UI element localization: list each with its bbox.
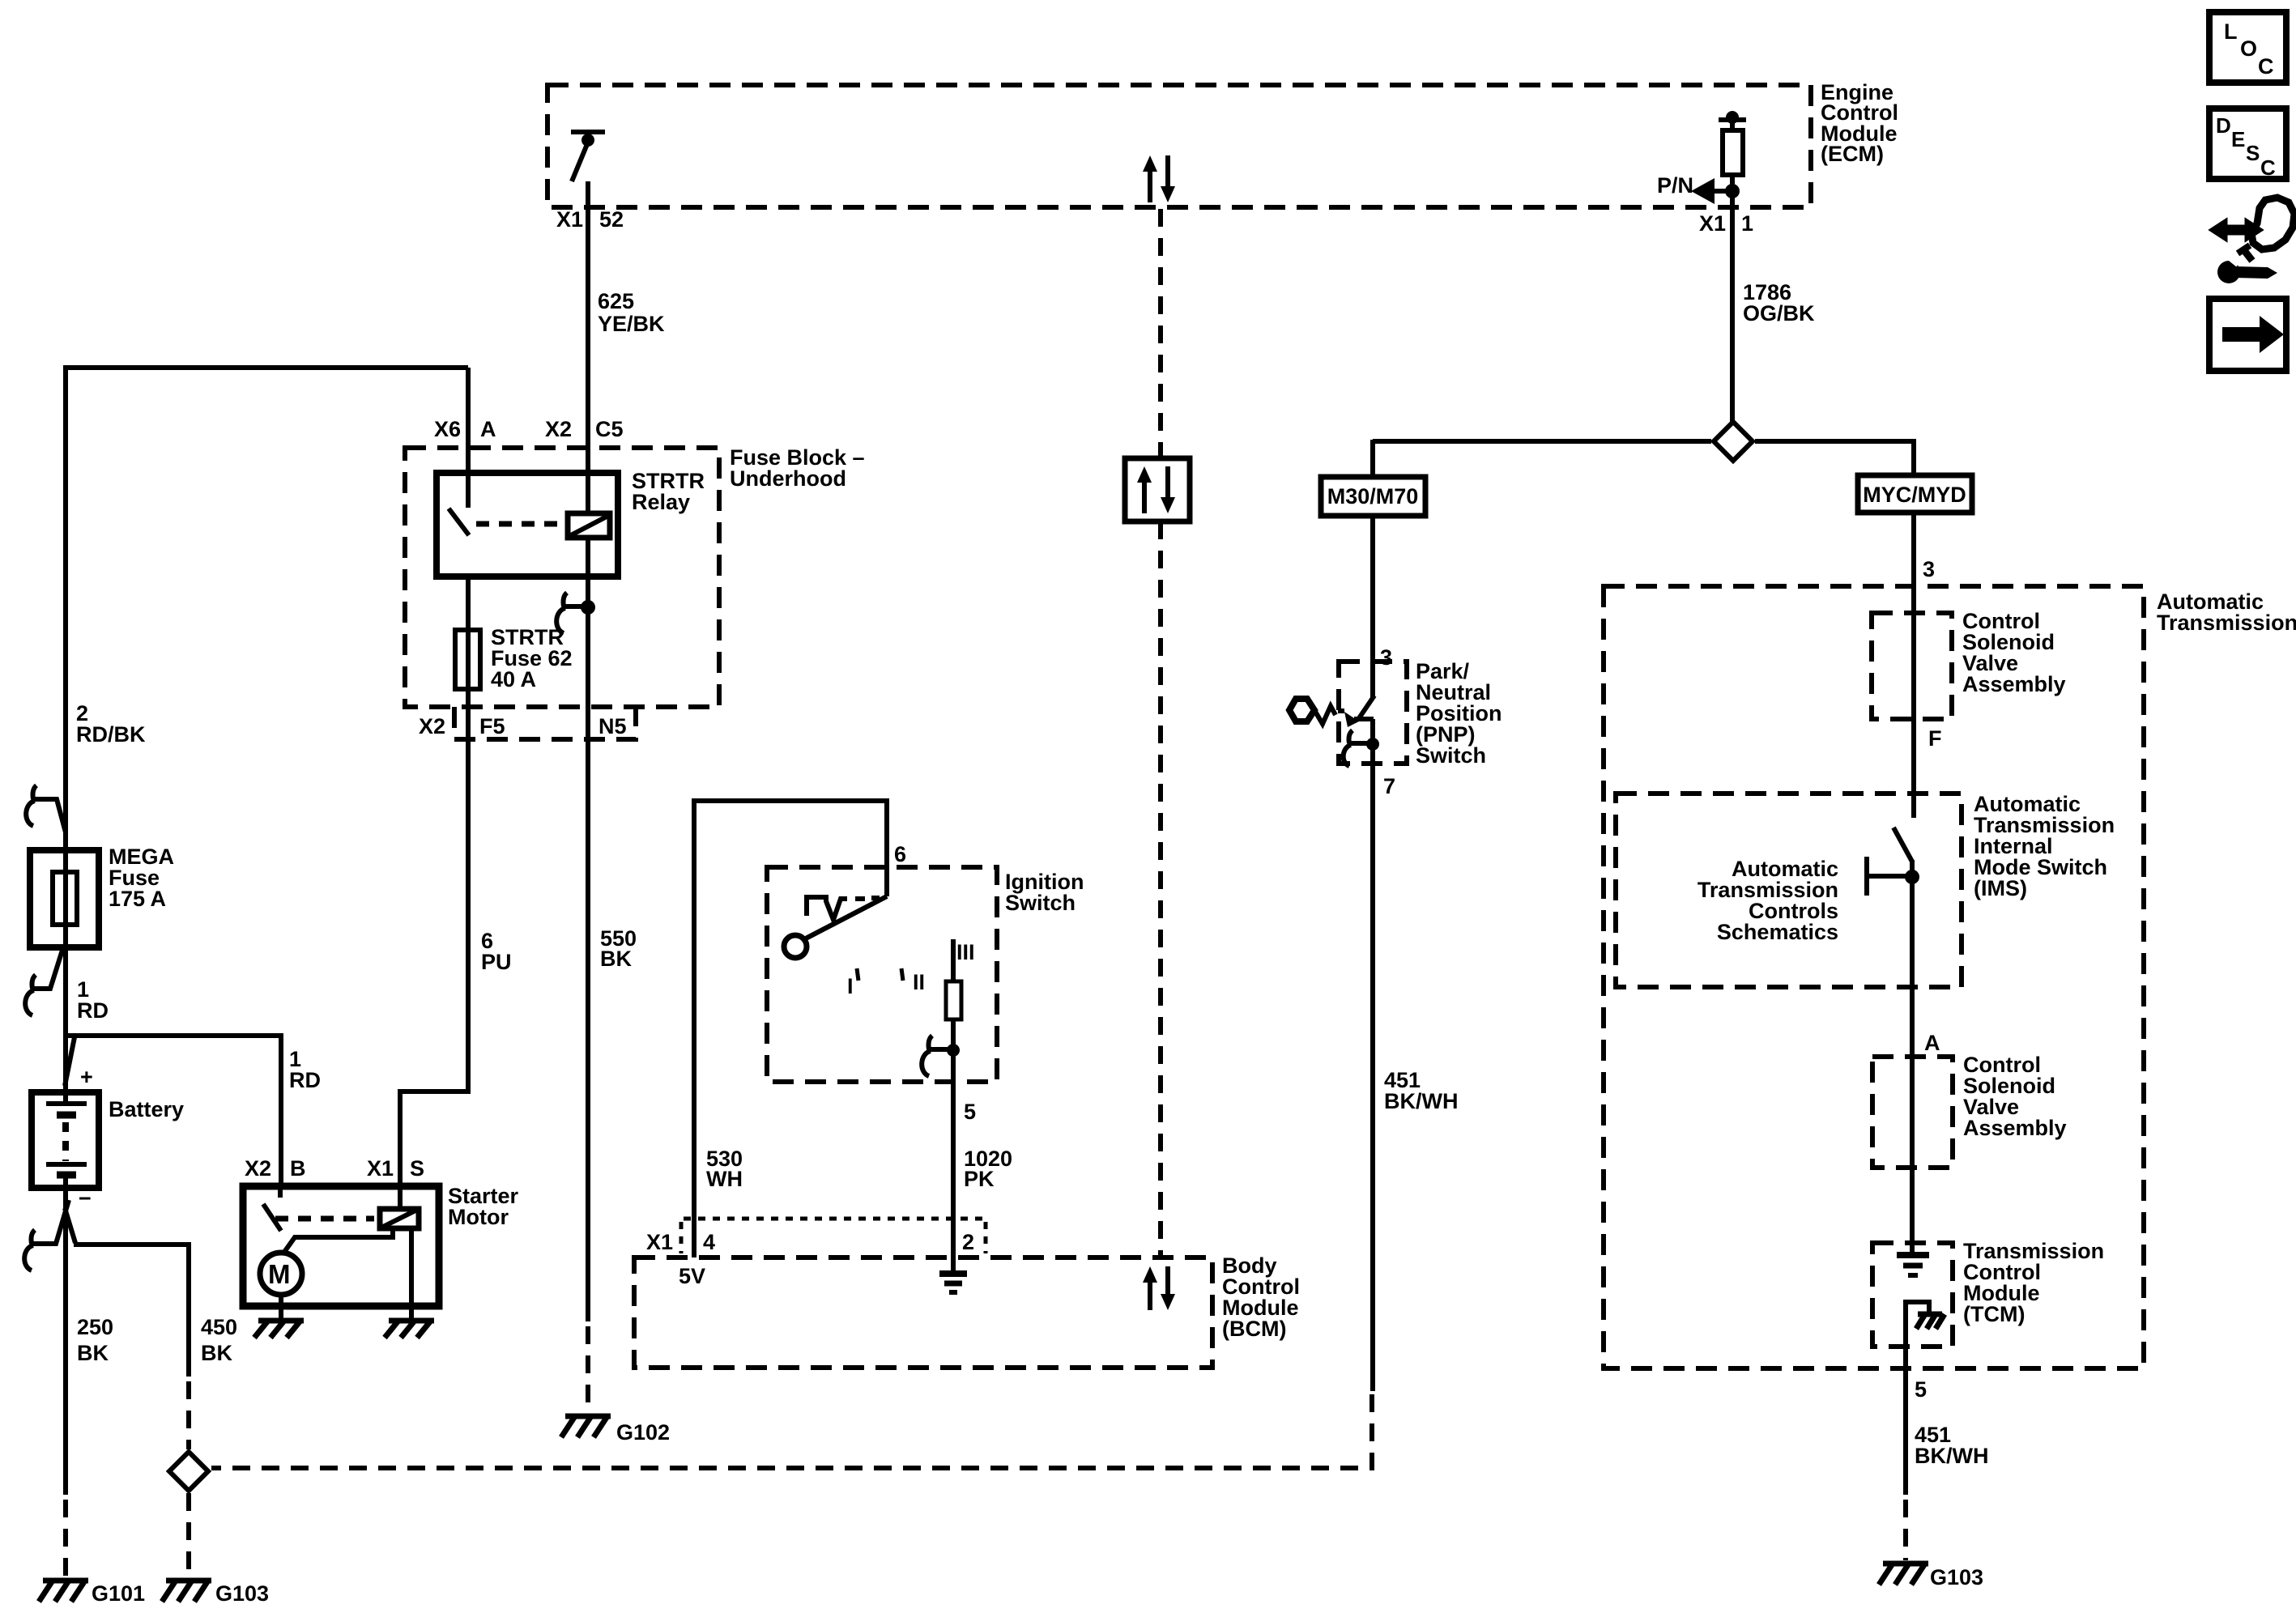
svg-text:5V: 5V <box>679 1264 705 1288</box>
svg-text:D: D <box>2216 113 2231 138</box>
svg-text:WH: WH <box>706 1167 743 1191</box>
svg-text:Assembly: Assembly <box>1963 1116 2067 1140</box>
svg-text:RD: RD <box>289 1068 321 1092</box>
svg-text:X1: X1 <box>556 207 583 232</box>
svg-text:5: 5 <box>964 1100 976 1124</box>
svg-text:Relay: Relay <box>632 490 690 514</box>
svg-text:52: 52 <box>599 207 624 232</box>
svg-text:Motor: Motor <box>448 1205 509 1229</box>
svg-text:4: 4 <box>703 1230 715 1254</box>
svg-text:5: 5 <box>1915 1377 1927 1402</box>
svg-text:BK/WH: BK/WH <box>1915 1444 1988 1468</box>
svg-text:X1: X1 <box>1699 211 1726 236</box>
svg-text:A: A <box>1924 1031 1940 1055</box>
svg-text:7: 7 <box>1383 774 1395 798</box>
svg-text:P/N: P/N <box>1657 173 1693 198</box>
svg-text:C5: C5 <box>595 417 624 441</box>
svg-text:C: C <box>2258 54 2274 79</box>
svg-text:PU: PU <box>481 950 512 974</box>
svg-text:+: + <box>80 1065 93 1089</box>
svg-text:BK/WH: BK/WH <box>1384 1089 1458 1113</box>
svg-text:Transmission: Transmission <box>2157 611 2296 635</box>
svg-text:Battery: Battery <box>109 1097 184 1121</box>
svg-text:M30/M70: M30/M70 <box>1327 484 1419 509</box>
svg-text:S: S <box>410 1156 424 1181</box>
svg-text:BK: BK <box>77 1341 109 1365</box>
svg-text:B: B <box>290 1156 306 1181</box>
svg-text:(TCM): (TCM) <box>1963 1302 2025 1326</box>
svg-text:X6: X6 <box>434 417 461 441</box>
svg-text:X2: X2 <box>419 714 445 738</box>
svg-text:G103: G103 <box>215 1581 269 1606</box>
svg-text:F: F <box>1928 726 1942 751</box>
svg-text:(BCM): (BCM) <box>1222 1317 1286 1341</box>
svg-text:Underhood: Underhood <box>730 466 846 491</box>
svg-text:S: S <box>2246 141 2260 165</box>
svg-text:MYC/MYD: MYC/MYD <box>1863 483 1966 507</box>
svg-text:1: 1 <box>1741 211 1753 236</box>
svg-text:A: A <box>480 417 496 441</box>
svg-text:−: − <box>79 1186 92 1211</box>
svg-text:G101: G101 <box>92 1581 145 1606</box>
svg-text:625: 625 <box>598 289 634 313</box>
svg-text:2: 2 <box>962 1230 974 1254</box>
svg-text:I: I <box>847 974 854 998</box>
svg-text:O: O <box>2240 36 2257 61</box>
svg-text:450: 450 <box>201 1315 237 1339</box>
svg-text:(IMS): (IMS) <box>1974 876 2027 900</box>
svg-text:F5: F5 <box>479 714 505 738</box>
svg-text:II: II <box>913 970 925 994</box>
svg-text:3: 3 <box>1923 557 1935 581</box>
svg-text:III: III <box>956 940 975 964</box>
svg-text:175 A: 175 A <box>109 887 166 911</box>
svg-text:Switch: Switch <box>1416 743 1486 768</box>
svg-text:L: L <box>2224 19 2238 44</box>
svg-text:3: 3 <box>1380 645 1392 670</box>
svg-text:Schematics: Schematics <box>1717 920 1838 944</box>
svg-text:E: E <box>2231 127 2245 151</box>
svg-text:Assembly: Assembly <box>1962 672 2066 696</box>
svg-text:6: 6 <box>894 842 906 866</box>
svg-text:C: C <box>2260 155 2276 180</box>
svg-text:Switch: Switch <box>1005 891 1076 915</box>
svg-text:X1: X1 <box>367 1156 394 1181</box>
svg-text:RD: RD <box>77 998 109 1023</box>
svg-text:X2: X2 <box>545 417 572 441</box>
svg-text:X1: X1 <box>646 1230 673 1254</box>
svg-text:G103: G103 <box>1930 1565 1983 1589</box>
svg-text:BK: BK <box>201 1341 232 1365</box>
svg-text:M: M <box>268 1259 291 1289</box>
svg-text:(ECM): (ECM) <box>1821 142 1884 166</box>
svg-text:X2: X2 <box>245 1156 271 1181</box>
svg-text:PK: PK <box>964 1167 995 1191</box>
svg-text:OG/BK: OG/BK <box>1743 301 1815 326</box>
svg-text:BK: BK <box>600 947 632 971</box>
svg-text:250: 250 <box>77 1315 113 1339</box>
svg-text:G102: G102 <box>616 1420 670 1445</box>
svg-text:40 A: 40 A <box>491 667 536 691</box>
svg-text:YE/BK: YE/BK <box>598 312 665 336</box>
svg-text:RD/BK: RD/BK <box>76 722 146 747</box>
svg-text:N5: N5 <box>598 714 627 738</box>
